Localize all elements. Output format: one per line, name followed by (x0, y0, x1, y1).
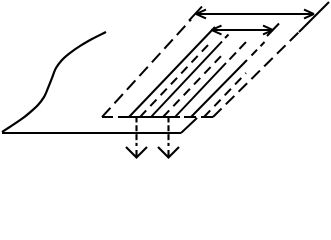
baseline end diagonal (181, 118, 197, 133)
s4 solid tick at short arrow right end (267, 24, 279, 37)
long arrow left tick (189, 7, 202, 21)
short double arrow (212, 26, 274, 35)
inner solid diagonal s2 (151, 42, 222, 118)
vertical dash-dot beam arrow 1 (126, 117, 147, 158)
inner solid diagonal s4 (191, 60, 247, 117)
baseline (2, 132, 181, 134)
s2 dashed top (225, 35, 229, 39)
inner dashed diagonal d1 (140, 44, 209, 117)
long double arrow (196, 10, 314, 19)
s3 dashed top (230, 42, 247, 60)
parallelogram bottom edge solid middle part (128, 116, 180, 118)
parallelogram bottom edge dashed right part (184, 116, 213, 118)
inner solid diagonal s1 (129, 27, 215, 117)
parallelogram left edge dashed (102, 20, 191, 118)
vertical dash-dot beam arrow 2 (158, 117, 179, 158)
characteristic S-curve (2, 32, 106, 132)
inner dashed diagonal d3 (204, 73, 246, 117)
parallelogram bottom edge dashed left part (102, 116, 128, 118)
s4 dashed middle (252, 42, 265, 56)
parallelogram right edge dashed (213, 30, 301, 117)
inner dashed diagonal d2 (163, 54, 223, 117)
right edge solid top segment (299, 2, 329, 32)
inner solid diagonal s3 (175, 63, 226, 117)
